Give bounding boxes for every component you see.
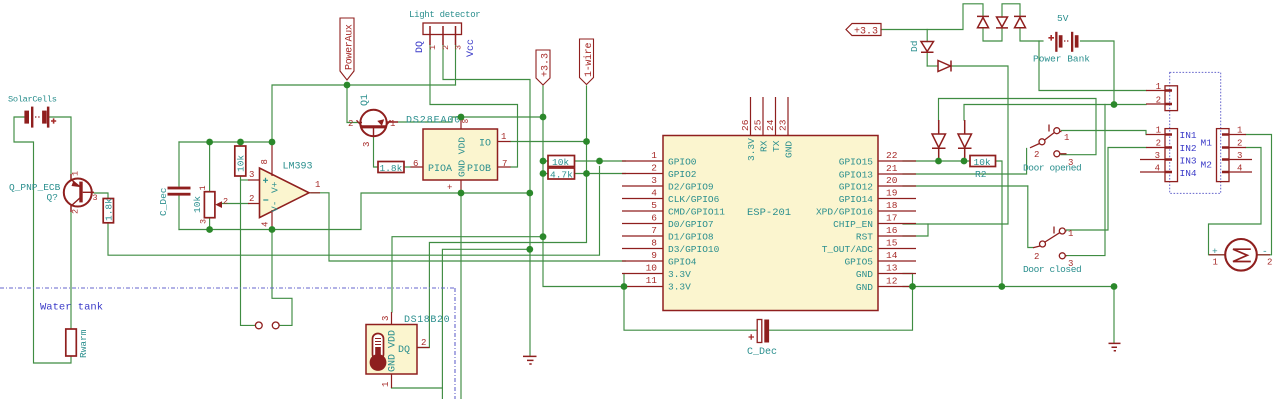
svg-text:GND VDD: GND VDD bbox=[388, 330, 399, 372]
svg-text:GND: GND bbox=[856, 269, 873, 280]
diode DL right bbox=[958, 120, 972, 161]
svg-text:2: 2 bbox=[1034, 252, 1039, 262]
svg-text:Dd: Dd bbox=[909, 41, 920, 52]
wire diode left leg to door opened pin3 bbox=[939, 99, 1097, 155]
svg-text:GND: GND bbox=[784, 141, 795, 158]
svg-text:GPIO12: GPIO12 bbox=[839, 182, 874, 193]
svg-text:1: 1 bbox=[1237, 126, 1242, 136]
svg-text:1-wire: 1-wire bbox=[583, 42, 595, 77]
svg-text:4: 4 bbox=[1155, 164, 1160, 174]
wire ESP pin13 GND drop bbox=[903, 274, 913, 287]
svg-text:3: 3 bbox=[651, 175, 657, 186]
Q? emitter arrow bbox=[72, 181, 80, 188]
svg-text:Power Bank: Power Bank bbox=[1033, 54, 1090, 65]
svg-text:1: 1 bbox=[315, 180, 320, 190]
svg-text:GPIO15: GPIO15 bbox=[839, 157, 874, 168]
svg-text:2: 2 bbox=[1034, 150, 1039, 160]
svg-text:2: 2 bbox=[223, 197, 228, 207]
svg-text:8: 8 bbox=[260, 159, 270, 164]
svg-text:D0/GPIO7: D0/GPIO7 bbox=[668, 219, 714, 230]
pin numbers Q? bbox=[71, 171, 98, 214]
svg-text:Light detector: Light detector bbox=[409, 10, 480, 20]
junction (272,229.5) bbox=[269, 226, 276, 233]
svg-text:23: 23 bbox=[778, 119, 789, 131]
wire Q? base to 1.8k bbox=[94, 193, 108, 198]
net flag +3.3 bbox=[536, 50, 550, 85]
wire Vcc pin of light detector bbox=[455, 45, 457, 85]
wire Rwarm top to Q? collector bbox=[70, 205, 72, 329]
transistor Q? bbox=[64, 174, 94, 212]
wire opamp output to ESP GPIO4 bbox=[311, 193, 626, 261]
svg-text:9: 9 bbox=[651, 250, 657, 261]
svg-text:3: 3 bbox=[1155, 151, 1160, 161]
potentiometer 10k bbox=[204, 192, 215, 218]
svg-text:12: 12 bbox=[886, 276, 898, 287]
svg-text:20: 20 bbox=[886, 175, 898, 186]
junction (964,161) bbox=[961, 158, 968, 165]
svg-text:PowerAux: PowerAux bbox=[345, 24, 356, 70]
ESP right pin numbers bbox=[886, 150, 898, 287]
svg-text:10: 10 bbox=[646, 263, 658, 274]
svg-text:GPIO13: GPIO13 bbox=[839, 170, 874, 181]
battery 5V Power Bank bbox=[1048, 32, 1078, 52]
svg-text:2: 2 bbox=[1156, 96, 1161, 106]
junction (258.8,325.4) bbox=[255, 322, 262, 329]
junction (209.6,142) bbox=[206, 139, 213, 146]
svg-text:22: 22 bbox=[886, 150, 898, 161]
junction (209.6,229.5) bbox=[206, 226, 213, 233]
water tank boundary bbox=[0, 288, 455, 399]
junction (543,236.7) bbox=[540, 233, 547, 240]
svg-text:24: 24 bbox=[765, 119, 776, 131]
svg-text:6: 6 bbox=[413, 159, 418, 169]
svg-text:RST: RST bbox=[856, 232, 873, 243]
wire pot wiper to opamp pin2 bbox=[222, 203, 249, 205]
svg-text:1: 1 bbox=[1068, 229, 1073, 239]
svg-text:3: 3 bbox=[249, 170, 254, 180]
wire 1.8k bottom long run to 10k right vertical bbox=[108, 167, 600, 256]
svg-text:1: 1 bbox=[71, 171, 81, 176]
svg-text:SolarCells: SolarCells bbox=[8, 95, 57, 105]
ESP left pin names bbox=[668, 157, 725, 293]
wire LM393 bottom rail to GND rail y193 bbox=[179, 193, 530, 230]
switch Door opened bbox=[1030, 125, 1067, 157]
svg-text:+3.3: +3.3 bbox=[854, 27, 878, 38]
wire diode right leg net to connector pin2 bbox=[964, 105, 1146, 121]
junction (461,117) bbox=[458, 114, 465, 121]
wire 4.7k pullup row GPIO2 bbox=[543, 173, 626, 175]
svg-text:2: 2 bbox=[1267, 258, 1272, 268]
svg-text:5: 5 bbox=[651, 200, 657, 211]
svg-text:8: 8 bbox=[651, 238, 657, 249]
wire light detector DQ to PIOB bbox=[430, 45, 518, 167]
svg-text:1: 1 bbox=[428, 45, 438, 50]
svg-text:DQ: DQ bbox=[398, 345, 410, 356]
wire 1.8k to PIOA stub bbox=[404, 166, 411, 168]
svg-text:1: 1 bbox=[390, 119, 395, 129]
M driver dotted box bbox=[1170, 72, 1221, 193]
net flag +3.3 right bbox=[846, 24, 881, 36]
svg-text:4: 4 bbox=[261, 222, 271, 227]
DS28EA00 box bbox=[423, 129, 498, 180]
wire GND rail to right ground symbol bbox=[1113, 287, 1115, 344]
svg-text:21: 21 bbox=[886, 163, 898, 174]
svg-text:3: 3 bbox=[381, 316, 391, 321]
svg-text:3: 3 bbox=[362, 142, 372, 147]
svg-text:7: 7 bbox=[651, 225, 657, 236]
wire bridge A-B bottom bbox=[983, 28, 1002, 41]
wire 10k divider vertical down to float switch bbox=[241, 142, 256, 325]
junction (1001.8,286.5) bbox=[998, 283, 1005, 290]
svg-text:3.3V: 3.3V bbox=[668, 269, 691, 280]
svg-text:7: 7 bbox=[502, 159, 507, 169]
wire DS18B20 VDD to +3.3 bbox=[392, 237, 543, 312]
svg-text:C_Dec: C_Dec bbox=[158, 187, 169, 216]
svg-text:IN1: IN1 bbox=[1180, 130, 1197, 141]
junction (586.5,173.5) bbox=[583, 170, 590, 177]
svg-text:D1/GPIO8: D1/GPIO8 bbox=[668, 232, 714, 243]
float switch contacts bbox=[255, 322, 279, 329]
capacitor C_Dec (ESP) bbox=[749, 320, 770, 343]
svg-text:Door opened: Door opened bbox=[1023, 163, 1081, 174]
wire ESP bottom C_Dec right to GND rail bbox=[769, 287, 913, 331]
svg-text:10k: 10k bbox=[552, 157, 569, 168]
wire pin2 net down to door closed pin3 bbox=[1067, 105, 1106, 256]
svg-text:TX: TX bbox=[771, 140, 782, 152]
ESP top pin numbers bbox=[740, 119, 789, 131]
svg-text:Rwarm: Rwarm bbox=[78, 329, 89, 358]
svg-text:10k: 10k bbox=[974, 157, 991, 168]
junction (347,85) bbox=[344, 82, 351, 89]
svg-text:1.8k: 1.8k bbox=[104, 198, 115, 221]
wire GPIO12 row to door commons bbox=[903, 185, 1028, 187]
ESP left pin numbers bbox=[646, 150, 658, 286]
svg-text:PIOA: PIOA bbox=[428, 164, 452, 175]
svg-text:3: 3 bbox=[199, 219, 209, 224]
diode DL left bbox=[932, 120, 946, 161]
svg-text:T_OUT/ADC: T_OUT/ADC bbox=[822, 244, 874, 255]
svg-text:1: 1 bbox=[651, 150, 657, 161]
svg-text:2: 2 bbox=[348, 119, 353, 129]
svg-text:1: 1 bbox=[1156, 126, 1161, 136]
connector top 2pin bbox=[1165, 86, 1178, 111]
svg-text:15: 15 bbox=[886, 238, 898, 249]
resistor 1.8k vertical bbox=[103, 199, 113, 223]
resistor 10k pullup bbox=[548, 156, 575, 167]
wire DS18B20 GND pin bottom bbox=[392, 387, 443, 389]
wire battery left to Rwarm loop bbox=[14, 117, 71, 363]
switch Door closed bbox=[1033, 227, 1067, 259]
svg-text:1: 1 bbox=[1064, 133, 1069, 143]
wire GPIO13 row bbox=[903, 149, 1027, 175]
wire +3.3 flag to diode bridge bbox=[881, 4, 983, 30]
wire PowerAux rail bbox=[272, 85, 456, 142]
svg-text:25: 25 bbox=[753, 119, 764, 131]
svg-text:Water tank: Water tank bbox=[40, 302, 103, 314]
ground symbol right bbox=[1109, 343, 1121, 350]
ESP top pin names bbox=[746, 138, 795, 161]
resistor 1.8k horizontal bbox=[378, 162, 404, 173]
connector IN 4pin bbox=[1165, 129, 1178, 182]
svg-text:+3.3: +3.3 bbox=[541, 53, 552, 77]
junction (912.5,286.5) bbox=[909, 283, 916, 290]
junction (543,117) bbox=[540, 114, 547, 121]
svg-text:LM393: LM393 bbox=[283, 162, 313, 173]
wire opamp pin3 jog bbox=[241, 179, 249, 181]
svg-text:19: 19 bbox=[886, 188, 898, 199]
svg-text:Q1: Q1 bbox=[360, 94, 371, 106]
junction (938.5,161) bbox=[935, 158, 942, 165]
wire 1-wire vertical and run to DS18B20 DQ riser bbox=[418, 86, 587, 348]
svg-text:2: 2 bbox=[1156, 139, 1161, 149]
svg-text:3.3V: 3.3V bbox=[746, 138, 757, 161]
wire door commons vertical bbox=[1028, 186, 1033, 248]
junction (272,142) bbox=[269, 139, 276, 146]
svg-text:1: 1 bbox=[501, 132, 506, 142]
wire +3.3 vertical to ESP 3.3V pins bbox=[543, 86, 624, 287]
diode A up bbox=[977, 16, 989, 27]
DS18B20 pins bbox=[392, 312, 430, 388]
svg-text:4: 4 bbox=[651, 188, 657, 199]
junction (275.7,325.4) bbox=[272, 322, 279, 329]
svg-text:6: 6 bbox=[651, 213, 657, 224]
junction (529.8,249.3) bbox=[526, 246, 533, 253]
svg-text:IN2: IN2 bbox=[1180, 143, 1197, 154]
wire M1 out pin1 to motor minus bbox=[1246, 135, 1272, 255]
svg-text:+: + bbox=[1212, 246, 1218, 257]
svg-text:DS18B20: DS18B20 bbox=[404, 315, 450, 326]
svg-text:1: 1 bbox=[381, 382, 391, 387]
svg-text:2: 2 bbox=[651, 163, 657, 174]
svg-text:26: 26 bbox=[740, 119, 751, 131]
wire GPIO15 row to R2 bbox=[903, 160, 970, 162]
wire 5V battery right down to pin2 net bbox=[1081, 41, 1115, 105]
DS18B20 box bbox=[366, 325, 417, 375]
svg-text:CMD/GPIO11: CMD/GPIO11 bbox=[668, 207, 725, 218]
svg-text:M1: M1 bbox=[1201, 138, 1213, 149]
junction (624,286.5) bbox=[621, 283, 628, 290]
svg-text:2: 2 bbox=[421, 338, 426, 348]
svg-text:R2: R2 bbox=[975, 169, 987, 180]
svg-text:3: 3 bbox=[93, 193, 98, 203]
svg-text:2: 2 bbox=[1237, 139, 1242, 149]
svg-text:11: 11 bbox=[646, 275, 658, 286]
svg-text:ESP-201: ESP-201 bbox=[747, 207, 791, 219]
svg-text:2: 2 bbox=[249, 194, 254, 204]
svg-text:IN3: IN3 bbox=[1180, 156, 1197, 167]
junction (543,161) bbox=[540, 158, 547, 165]
ESP left pin stubs bbox=[622, 161, 663, 287]
svg-text:PIOB: PIOB bbox=[467, 164, 491, 175]
wire Q1 collector to VDD net bbox=[398, 117, 461, 122]
wire 10k pullup row GPIO0 bbox=[543, 160, 626, 162]
svg-text:2: 2 bbox=[441, 45, 451, 50]
wire ESP bottom C_Dec left bbox=[624, 287, 758, 331]
svg-text:14: 14 bbox=[886, 250, 898, 261]
svg-text:1: 1 bbox=[198, 185, 208, 190]
wire Dd diode top bbox=[926, 30, 928, 67]
svg-text:16: 16 bbox=[886, 225, 898, 236]
svg-text:IN4: IN4 bbox=[1180, 168, 1197, 179]
wire GND drop to float switch right bbox=[272, 230, 292, 326]
svg-text:RX: RX bbox=[759, 140, 770, 152]
svg-text:4: 4 bbox=[1237, 164, 1242, 174]
diode D2 horizontal bbox=[938, 61, 951, 72]
wire 5V node down to M connector pin1 bbox=[1039, 41, 1146, 91]
svg-text:+: + bbox=[447, 183, 452, 193]
ESP right pin stubs bbox=[878, 161, 916, 287]
wire C_Dec cap verticals bbox=[178, 142, 180, 230]
wire VDD net to +3.3 bbox=[461, 116, 543, 118]
transistor Q1 bbox=[357, 110, 399, 137]
labels IN1-IN4 M1 M2 bbox=[1180, 130, 1213, 179]
resistor R2 10k bbox=[970, 156, 996, 167]
junction (529.8,193) bbox=[526, 190, 533, 197]
connector M out 4pin bbox=[1217, 129, 1230, 182]
svg-text:GPIO2: GPIO2 bbox=[668, 169, 697, 180]
svg-text:XPD/GPIO16: XPD/GPIO16 bbox=[816, 207, 873, 218]
svg-text:CHIP_EN: CHIP_EN bbox=[833, 219, 873, 230]
diode B down bbox=[996, 17, 1008, 28]
svg-text:GPIO14: GPIO14 bbox=[839, 194, 874, 205]
svg-text:GPIO4: GPIO4 bbox=[668, 257, 697, 268]
net flag 1-wire bbox=[580, 39, 594, 85]
svg-text:DQ: DQ bbox=[415, 41, 426, 53]
wire RST to CHIP_EN tie bbox=[903, 224, 928, 236]
svg-text:Vcc: Vcc bbox=[466, 39, 477, 57]
wire bridge C to 5V battery bbox=[1020, 28, 1043, 41]
svg-text:Door closed: Door closed bbox=[1023, 264, 1081, 275]
svg-text:3.3V: 3.3V bbox=[668, 282, 691, 293]
wire IO pin to 1-wire bbox=[511, 141, 587, 143]
svg-text:GPIO5: GPIO5 bbox=[844, 257, 873, 268]
junction (240.5,142) bbox=[237, 139, 244, 146]
svg-text:V-: V- bbox=[270, 201, 281, 212]
svg-text:D2/GPIO9: D2/GPIO9 bbox=[668, 182, 714, 193]
resistor 10k divider bbox=[235, 146, 246, 176]
light detector connector bbox=[423, 23, 462, 35]
Q1 arrow bbox=[377, 119, 384, 126]
wire R2 right down to GND rail bbox=[996, 161, 1003, 287]
resistor Rwarm bbox=[66, 329, 77, 356]
svg-text:10k: 10k bbox=[192, 196, 203, 213]
junction (1114,104.5) bbox=[1111, 101, 1118, 108]
svg-text:10k: 10k bbox=[236, 155, 247, 172]
svg-text:1.8k: 1.8k bbox=[380, 163, 403, 174]
DS28EA00 pins bbox=[411, 117, 511, 193]
junction (586.5,141.5) bbox=[583, 138, 590, 145]
op-amp LM393 bbox=[260, 168, 310, 218]
svg-text:C_Dec: C_Dec bbox=[747, 347, 777, 358]
junction (543,173.5) bbox=[540, 170, 547, 177]
wire door closed pin1 to IN2 bbox=[1067, 148, 1147, 231]
wire pot verticals bbox=[209, 142, 211, 230]
wire battery right to Q? emitter bbox=[49, 117, 71, 179]
thermometer icon bbox=[370, 334, 387, 371]
wire PowerAux to Q1 base bbox=[347, 85, 360, 123]
diode C up bbox=[1014, 16, 1026, 27]
ESP top pin stubs bbox=[751, 97, 789, 136]
ESP right pin names bbox=[816, 157, 873, 294]
wire LM393 top rail bbox=[179, 141, 272, 143]
svg-text:13: 13 bbox=[886, 263, 898, 274]
wire light detector pin2 to GND vertical bbox=[443, 45, 530, 356]
svg-text:GND VDD: GND VDD bbox=[457, 137, 468, 177]
motor M bbox=[1225, 239, 1257, 271]
diode Dd bbox=[921, 42, 934, 53]
svg-text:GPIO0: GPIO0 bbox=[668, 157, 697, 168]
svg-text:D3/GPIO10: D3/GPIO10 bbox=[668, 244, 720, 255]
svg-text:-: - bbox=[1262, 246, 1268, 257]
battery SolarCells bbox=[24, 107, 56, 128]
junction (599.5,161) bbox=[596, 158, 603, 165]
svg-text:1: 1 bbox=[1156, 82, 1161, 92]
svg-text:DS28EA00: DS28EA00 bbox=[406, 116, 461, 127]
svg-text:4.7k: 4.7k bbox=[550, 170, 573, 181]
svg-text:17: 17 bbox=[886, 213, 897, 224]
net flag PowerAux bbox=[340, 18, 354, 80]
svg-text:2: 2 bbox=[71, 209, 81, 214]
IC ESP-201 box bbox=[663, 136, 878, 311]
junction (1114,286.5) bbox=[1111, 283, 1118, 290]
wire ESP 3.3V pin10 drop bbox=[623, 274, 625, 287]
svg-text:V+: V+ bbox=[270, 181, 281, 193]
ground symbol left bbox=[523, 356, 537, 364]
svg-text:18: 18 bbox=[886, 200, 898, 211]
svg-text:5V: 5V bbox=[1057, 13, 1069, 24]
wire Q1 emitter to 1.8k horizontal bbox=[374, 137, 379, 167]
wire GND rail bottom right bbox=[903, 286, 1114, 288]
wire Dd to D2 bbox=[927, 65, 937, 67]
svg-text:Q?: Q? bbox=[47, 192, 58, 203]
svg-text:CLK/GPIO6: CLK/GPIO6 bbox=[668, 194, 720, 205]
junction (461,193) bbox=[458, 190, 465, 197]
wire D2 output to CHIP_EN net bbox=[903, 66, 1008, 224]
svg-text:GND: GND bbox=[856, 282, 873, 293]
svg-text:1: 1 bbox=[1213, 258, 1218, 268]
capacitor C_Dec (LM393) bbox=[168, 187, 191, 196]
svg-text:IO: IO bbox=[479, 139, 491, 150]
svg-text:3: 3 bbox=[1237, 151, 1242, 161]
wire door opened pin1 to IN1 bbox=[1062, 131, 1147, 135]
wire M1 out pin2 to motor plus bbox=[1209, 148, 1262, 255]
wire bridge B-C top bbox=[1002, 4, 1020, 17]
resistor 4.7k pullup bbox=[548, 168, 575, 179]
wire DS28EA00 GND net down bbox=[460, 193, 462, 399]
svg-text:M2: M2 bbox=[1201, 160, 1213, 171]
svg-text:3: 3 bbox=[454, 45, 464, 50]
wire y249 GND run bbox=[442, 249, 529, 399]
